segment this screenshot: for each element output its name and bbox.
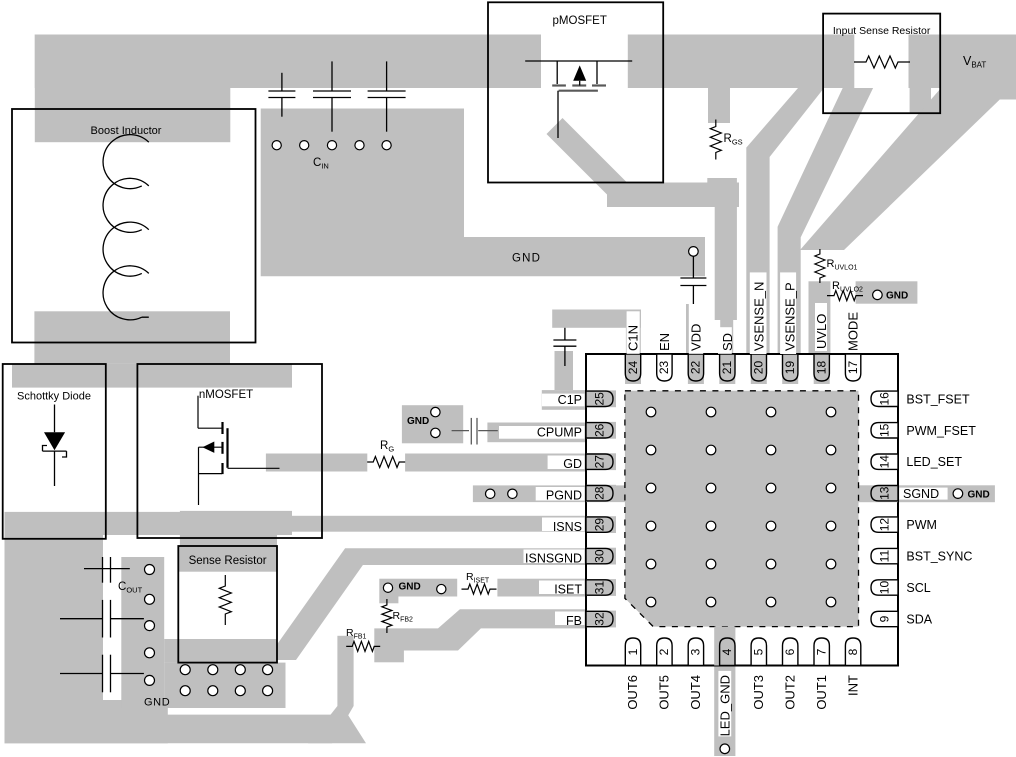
svg-text:MODE: MODE xyxy=(846,312,861,351)
svg-text:VSENSE_P: VSENSE_P xyxy=(783,282,798,351)
svg-text:Sense Resistor: Sense Resistor xyxy=(189,555,267,567)
wire bottom ground band xyxy=(5,715,367,744)
wire C1N stub to pin 24 xyxy=(626,311,641,354)
wire RFB1 column xyxy=(337,636,353,706)
resistor RG xyxy=(367,457,405,468)
pin 28 xyxy=(586,486,613,501)
wire C1P trace to pin 25 xyxy=(542,390,586,410)
pin 12 xyxy=(871,517,898,532)
svg-text:9: 9 xyxy=(877,615,891,622)
svg-text:PWM_FSET: PWM_FSET xyxy=(906,424,976,438)
pin 19 xyxy=(783,354,798,381)
resistor RUVLO1 xyxy=(815,249,825,283)
label box ISNSGND xyxy=(524,550,585,564)
svg-text:15: 15 xyxy=(877,423,891,437)
svg-text:19: 19 xyxy=(783,361,797,375)
svg-text:12: 12 xyxy=(877,518,891,532)
wire stub behind pin 27 xyxy=(586,453,616,470)
resistor RGS xyxy=(710,120,721,160)
wire left plane below COUT gap xyxy=(103,700,168,743)
svg-text:GND: GND xyxy=(407,416,429,427)
pin 22 xyxy=(688,354,703,381)
pin 27 xyxy=(586,454,613,469)
pin 23 xyxy=(657,354,672,381)
pin 1 xyxy=(625,638,640,666)
svg-text:GD: GD xyxy=(563,457,582,471)
svg-text:25: 25 xyxy=(592,392,606,406)
wire VSENSE_P diagonal trace to pin 19 xyxy=(778,88,874,354)
label box VDD xyxy=(689,304,703,354)
wire RGS stub lower to gate band xyxy=(707,178,737,207)
wire stub behind pin 22 xyxy=(688,354,704,384)
pin 24 xyxy=(625,354,640,381)
via ISET gnd 1 xyxy=(383,583,392,592)
capacitor COUT 2 xyxy=(60,600,144,638)
svg-text:26: 26 xyxy=(592,423,606,437)
svg-text:OUT3: OUT3 xyxy=(751,675,766,710)
resistor RUVLO2 xyxy=(827,291,863,301)
IC U1 body outline xyxy=(586,354,898,666)
wire ISET ground stub above RFB2 xyxy=(379,597,398,604)
svg-text:1: 1 xyxy=(626,648,640,655)
svg-text:5: 5 xyxy=(752,648,766,655)
wire VIN top bar left segment xyxy=(35,35,541,89)
svg-text:21: 21 xyxy=(720,361,734,375)
wire CPUMP trace to pin 26 xyxy=(487,423,586,443)
svg-text:GND: GND xyxy=(512,253,541,265)
wire pMOSFET gate band xyxy=(607,183,739,208)
pin 20 xyxy=(751,354,766,381)
svg-text:30: 30 xyxy=(592,549,606,563)
svg-text:SDA: SDA xyxy=(906,613,932,627)
wire stub behind pin 20 xyxy=(751,354,767,384)
pin 17 xyxy=(845,354,860,381)
wire SGND into thermal pad xyxy=(850,485,898,502)
pin 13 xyxy=(871,486,898,501)
via SGND xyxy=(953,489,963,499)
diode D1 schottky symbol xyxy=(43,405,67,487)
svg-text:32: 32 xyxy=(592,612,606,626)
svg-text:3: 3 xyxy=(689,648,703,655)
svg-text:14: 14 xyxy=(877,455,891,469)
svg-text:OUT6: OUT6 xyxy=(625,675,640,710)
svg-text:ISNSGND: ISNSGND xyxy=(525,551,582,565)
thermal pad via array xyxy=(646,407,836,607)
resistor sense symbol xyxy=(219,575,231,625)
pin 7 xyxy=(814,638,829,666)
svg-text:SCL: SCL xyxy=(906,581,930,595)
wire VDD decoupling stub xyxy=(686,304,702,384)
capacitor COUT 3 xyxy=(60,655,144,693)
wire stub behind pin 29 xyxy=(586,516,616,533)
label box VSENSE_N xyxy=(750,272,767,354)
svg-text:ISNS: ISNS xyxy=(553,520,582,534)
label box ISNS xyxy=(542,518,585,532)
wire stub behind pin 24 xyxy=(625,354,641,384)
svg-text:OUT1: OUT1 xyxy=(814,675,829,710)
wire GND via grid plane xyxy=(164,663,285,708)
pin 30 xyxy=(586,548,613,563)
capacitor CIN 2 xyxy=(331,61,333,91)
wire switch node band through Schottky and nMOSFET boxes xyxy=(12,364,292,388)
pin 26 xyxy=(586,423,613,438)
svg-text:27: 27 xyxy=(592,455,606,469)
svg-text:31: 31 xyxy=(592,581,606,595)
via array GND grid xyxy=(180,665,272,696)
svg-text:BST_SYNC: BST_SYNC xyxy=(906,550,972,564)
wire stub behind pin 18 xyxy=(814,354,830,384)
svg-text:GND: GND xyxy=(886,291,908,302)
svg-text:23: 23 xyxy=(657,361,671,375)
svg-text:PWM: PWM xyxy=(906,518,937,532)
wire LED_GND column inside chip xyxy=(714,627,735,666)
svg-text:LED_GND: LED_GND xyxy=(718,675,733,736)
wire inductor bottom pad / switch node xyxy=(34,311,230,363)
pin 9 xyxy=(871,611,898,626)
pin 10 xyxy=(871,580,898,595)
resistor RFB2 xyxy=(382,599,392,633)
inductor L1 coil xyxy=(103,135,149,320)
IC U1 thermal pad xyxy=(625,391,859,627)
wire UVLO ground island xyxy=(856,281,918,303)
pin 4 xyxy=(720,638,735,666)
svg-text:20: 20 xyxy=(752,361,766,375)
wire RFB1 column diagonal to bottom band xyxy=(308,706,354,743)
pin 8 xyxy=(845,638,860,666)
svg-text:GND: GND xyxy=(968,489,990,500)
label box SGND xyxy=(899,488,947,500)
wire C1P stub xyxy=(555,351,574,390)
capacitor COUT 1 xyxy=(84,557,130,583)
wire VBAT top bar right segment A xyxy=(628,35,855,89)
pin 2 xyxy=(657,638,672,666)
wire PGND trace to pin 28 xyxy=(473,485,586,502)
boost inductor L1 box xyxy=(12,109,256,343)
svg-text:28: 28 xyxy=(592,486,606,500)
wire stub behind pin 30 xyxy=(586,548,616,565)
via ISET 2 xyxy=(437,584,446,593)
label box C1N xyxy=(627,311,640,354)
pin 3 xyxy=(688,638,703,666)
pin 21 xyxy=(720,354,735,381)
label box PGND xyxy=(536,487,585,501)
via GND at RUVLO2 island xyxy=(873,290,883,300)
svg-text:VDD: VDD xyxy=(688,324,703,351)
svg-text:ISET: ISET xyxy=(554,583,582,597)
svg-text:OUT4: OUT4 xyxy=(688,675,703,710)
label box FB xyxy=(555,612,585,626)
nMOSFET Q2 symbol xyxy=(198,396,280,505)
capacitor C1 flying xyxy=(564,328,566,340)
via CPUMP island 2 xyxy=(431,428,440,437)
svg-text:nMOSFET: nMOSFET xyxy=(199,389,253,401)
svg-text:6: 6 xyxy=(783,648,797,655)
pin 11 xyxy=(871,548,898,563)
wire stub behind pin 19 xyxy=(782,354,798,384)
wire VBAT top bar right segment B xyxy=(909,35,1016,89)
input sense resistor box xyxy=(823,14,940,114)
svg-text:Boost Inductor: Boost Inductor xyxy=(91,125,162,137)
pMOSFET Q1 box xyxy=(488,2,663,182)
wire stub behind pin 26 xyxy=(586,422,616,439)
wire sense resistor top pad xyxy=(178,546,277,572)
via CPUMP island 1 xyxy=(431,407,440,416)
nMOSFET Q2 box xyxy=(137,364,322,538)
svg-text:2: 2 xyxy=(657,648,671,655)
wire ISNSGND trace with diagonal to GND vias xyxy=(266,548,586,660)
label box ISET xyxy=(539,581,585,595)
svg-text:8: 8 xyxy=(846,648,860,655)
wire PGND into thermal pad xyxy=(586,485,630,502)
wire pMOSFET gate diagonal xyxy=(547,118,636,207)
svg-text:UVLO: UVLO xyxy=(814,314,829,349)
wire stub behind pin 28 xyxy=(586,485,616,502)
pin 31 xyxy=(586,580,613,595)
wire left output plane xyxy=(5,535,104,743)
wire FB trace to pin 32 xyxy=(374,609,586,650)
label box CPUMP xyxy=(499,426,585,439)
svg-text:SGND: SGND xyxy=(903,487,939,501)
wire column above sense resistor xyxy=(180,534,277,547)
svg-text:BST_FSET: BST_FSET xyxy=(906,392,970,406)
wire inductor top pad xyxy=(35,35,231,143)
svg-text:PGND: PGND xyxy=(546,488,582,502)
svg-text:Schottky Diode: Schottky Diode xyxy=(17,391,91,403)
svg-text:C1P: C1P xyxy=(558,393,582,407)
label box C1P xyxy=(542,394,585,407)
pin 5 xyxy=(751,638,766,666)
label box VSENSE_P xyxy=(780,272,796,354)
wire ISET trace right of RISET to pin 31 xyxy=(497,579,586,597)
svg-text:18: 18 xyxy=(815,361,829,375)
wire stub behind pin 32 xyxy=(586,611,616,628)
svg-text:OUT2: OUT2 xyxy=(782,675,797,710)
resistor RFB1 xyxy=(346,641,380,651)
svg-text:EN: EN xyxy=(657,333,672,351)
svg-text:24: 24 xyxy=(626,361,640,375)
svg-text:11: 11 xyxy=(877,550,891,563)
capacitor CIN 3 xyxy=(386,61,388,91)
svg-text:SD: SD xyxy=(720,333,735,351)
wire ISNS pad at nMOSFET source xyxy=(180,511,292,535)
wire COUT via column xyxy=(121,557,164,708)
wire LED_GND column below chip xyxy=(714,666,735,757)
svg-text:GND: GND xyxy=(399,582,421,593)
svg-text:7: 7 xyxy=(815,648,829,655)
label box LED_GND xyxy=(718,671,731,737)
wire C1N trace xyxy=(552,310,641,328)
wire Schottky/nMOSFET bottom band xyxy=(5,512,293,535)
pin 29 xyxy=(586,517,613,532)
wire SD column to pin 21 xyxy=(715,183,737,321)
via array CIN xyxy=(272,141,391,150)
wire stub behind pin 21 xyxy=(719,354,735,384)
svg-text:4: 4 xyxy=(720,648,734,655)
resistor RISET xyxy=(462,584,497,594)
wire sense resistor bottom pad xyxy=(164,639,277,663)
svg-text:29: 29 xyxy=(592,518,606,532)
svg-text:17: 17 xyxy=(846,361,860,375)
label box UVLO xyxy=(815,303,827,351)
wire SD column narrow xyxy=(720,320,733,354)
capacitor CPUMP xyxy=(452,430,469,432)
pin 14 xyxy=(871,454,898,469)
svg-text:VSENSE_N: VSENSE_N xyxy=(751,282,766,351)
wire CPUMP ground island xyxy=(402,405,463,443)
svg-text:GND: GND xyxy=(144,697,170,709)
svg-text:CPUMP: CPUMP xyxy=(537,426,582,440)
wire ISNS trace to pin 29 xyxy=(276,516,586,532)
capacitor CIN 1 xyxy=(281,73,283,91)
pin 32 xyxy=(586,611,613,626)
svg-text:22: 22 xyxy=(689,361,703,375)
wire input sense right terminal block xyxy=(910,88,931,113)
sense resistor box xyxy=(178,546,277,663)
wire GD trace left of RG xyxy=(266,454,367,472)
wire CIN ground plane xyxy=(261,109,705,277)
svg-text:OUT5: OUT5 xyxy=(657,675,672,710)
svg-text:13: 13 xyxy=(877,486,891,500)
pin 18 xyxy=(814,354,829,381)
label box GD xyxy=(548,456,585,470)
wire FB notch below RFB2 xyxy=(374,651,404,663)
wire UVLO stub to pin 18 xyxy=(809,281,831,354)
svg-text:C1N: C1N xyxy=(626,325,641,351)
svg-text:FB: FB xyxy=(566,614,582,628)
svg-text:10: 10 xyxy=(877,581,891,595)
wire VBAT wide diagonal to RUVLO1 xyxy=(800,88,1016,250)
wire GD trace right of RG to pin 27 xyxy=(405,454,586,472)
pin 6 xyxy=(783,638,798,666)
label box SD xyxy=(718,327,732,354)
via LED_GND xyxy=(720,744,730,754)
via array COUT column xyxy=(145,565,155,686)
svg-text:pMOSFET: pMOSFET xyxy=(553,15,607,27)
pin 16 xyxy=(871,391,898,406)
resistor input sense symbol xyxy=(854,56,910,68)
wire ISET trace left of RISET xyxy=(379,579,457,597)
wire VSENSE_N diagonal trace to pin 20 xyxy=(746,88,824,354)
wire RGS stub from VBAT bar xyxy=(708,88,730,123)
capacitor VDD decoupling xyxy=(692,256,694,278)
wire stub behind pin 31 xyxy=(586,579,616,596)
Schottky diode D1 box xyxy=(3,364,106,539)
svg-text:INT: INT xyxy=(845,675,860,696)
svg-text:LED_SET: LED_SET xyxy=(906,455,962,469)
pMOSFET Q1 symbol xyxy=(525,61,632,138)
wire SGND trace to GND via xyxy=(866,485,995,502)
via PGND 2 xyxy=(508,489,517,498)
svg-text:Input Sense Resistor: Input Sense Resistor xyxy=(833,25,931,37)
wire stub behind pin 25 xyxy=(586,390,616,407)
pin 15 xyxy=(871,423,898,438)
pin 25 xyxy=(586,391,613,406)
via PGND 1 xyxy=(486,489,495,498)
via VDD cap xyxy=(689,247,699,257)
svg-text:16: 16 xyxy=(877,392,891,406)
